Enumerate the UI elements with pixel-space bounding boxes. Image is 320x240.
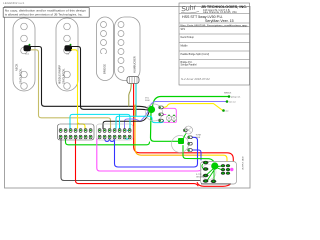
svg-text:BRIDGE: BRIDGE	[103, 64, 107, 74]
switch lugs top row	[59, 129, 131, 133]
svg-text:neck: neck	[25, 54, 29, 56]
tone cap	[185, 126, 193, 134]
svg-text:500K: 500K	[196, 137, 201, 139]
wire humbucker bare/olive strand	[129, 84, 131, 106]
svg-text:SINGLECOIL: SINGLECOIL	[62, 68, 66, 84]
svg-text:vol. out: vol. out	[229, 101, 236, 104]
wire neck tan	[31, 50, 111, 128]
svg-text:pickup sel.: pickup sel.	[231, 97, 241, 99]
svg-text:S-2 Amer 2018-07-02: S-2 Amer 2018-07-02	[181, 77, 210, 81]
svg-text:WH/BLK: WH/BLK	[224, 93, 232, 95]
svg-text:SP1: SP1	[181, 28, 186, 31]
wire green tone to jack	[183, 146, 215, 164]
wire blue scallops under switch	[105, 138, 115, 142]
svg-text:LEGEND2 rev1: LEGEND2 rev1	[3, 1, 25, 5]
svg-text:Strings Parallel: Strings Parallel	[181, 64, 198, 67]
output endpoint dots + labels	[222, 93, 241, 113]
svg-text:Neck Pickup: Neck Pickup	[181, 36, 195, 39]
svg-text:Paddle Bridge Split (Coil 2): Paddle Bridge Split (Coil 2)	[181, 53, 210, 56]
svg-text:mid: mid	[66, 54, 69, 56]
wire green volume-to-tone ground	[151, 112, 179, 141]
jack right lug cluster	[221, 164, 230, 174]
wire yellow volume mid lug to out dot	[162, 104, 223, 111]
wire humbucker red (big loop to jack)	[134, 84, 234, 186]
wire cyan long (switch loop + to volume)	[70, 114, 130, 130]
wire blue switch to tone pot	[115, 137, 198, 167]
svg-text:No copy, distribution and/or m: No copy, distribution and/or modificatio…	[5, 9, 87, 13]
page border	[5, 7, 251, 189]
wire middle black	[72, 47, 151, 111]
switch right bank frame	[97, 124, 134, 140]
svg-text:Middle: Middle	[181, 45, 189, 48]
wire switch red (bottom)	[76, 139, 199, 186]
wire switch green to pots ground	[66, 139, 150, 145]
pickup NECK single coil	[13, 18, 35, 91]
wire magenta switch to jack	[97, 139, 204, 172]
svg-text:NECK: NECK	[15, 64, 19, 71]
svg-text:is allowed without the permiss: is allowed without the permission of JB …	[5, 12, 83, 16]
jack green links	[202, 164, 222, 180]
svg-text:Lake Charenta, CA 92145, USA: Lake Charenta, CA 92145, USA	[203, 11, 237, 14]
disclaimer box	[3, 8, 89, 18]
wire middle yellow	[72, 50, 86, 129]
jack left lugs	[203, 161, 216, 183]
jack green blob	[211, 162, 218, 169]
svg-text:out: out	[226, 110, 229, 113]
wire humbucker white/teal strand	[135, 84, 137, 116]
treble bleed caps	[164, 108, 177, 122]
svg-text:HUMBUCKER: HUMBUCKER	[133, 56, 137, 73]
wire purple from switch over volume to dot	[125, 102, 227, 129]
wire black switch to volume lug3	[103, 112, 149, 129]
jack plate	[201, 162, 237, 185]
svg-text:Rev: Date 06/07/06: Descript: Rev: Date 06/07/06: Descriptions, modifi…	[181, 24, 249, 27]
svg-text:SINGLECOIL: SINGLECOIL	[19, 68, 23, 84]
svg-text:GROUND: GROUND	[196, 176, 205, 178]
svg-text:OUTPUT JACK: OUTPUT JACK	[242, 155, 245, 170]
jack body circle	[201, 165, 216, 180]
wire switch black ground (bottom loop)	[61, 139, 218, 181]
pickup BRIDGE humbucker	[97, 17, 141, 84]
svg-text:SeryMan Veer. 15: SeryMan Veer. 15	[205, 19, 234, 23]
wire cyan to volume lug3	[116, 116, 164, 128]
wire blue tone lug3 stub	[192, 150, 201, 160]
wire cyan curl bottom	[125, 137, 130, 140]
wire cyan branch to lug	[119, 114, 121, 128]
wire green volume blob up to output dot	[153, 97, 229, 107]
switch left bank frame	[58, 124, 95, 140]
wire neck black	[31, 47, 150, 110]
pickup MIDDLE single coil	[56, 18, 78, 91]
svg-text:500K: 500K	[145, 100, 150, 102]
wire humbucker orange/white	[135, 105, 202, 155]
switch lugs bottom row	[59, 135, 131, 139]
jack magenta marker	[230, 168, 233, 171]
svg-text:HSS STT 5way LV50 P.U.: HSS STT 5way LV50 P.U.	[182, 15, 223, 19]
svg-text:MIDDLE RW/RP: MIDDLE RW/RP	[58, 65, 62, 84]
